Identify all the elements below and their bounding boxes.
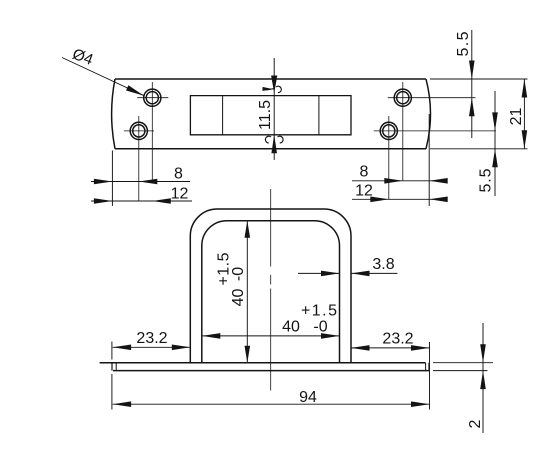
svg-text:3.8: 3.8 [372, 256, 394, 273]
svg-text:-0: -0 [313, 319, 327, 336]
svg-text:40: 40 [282, 319, 300, 336]
extension line baseplate right end [429, 342, 431, 410]
arrow down 21 [522, 130, 528, 149]
svg-text:5.5: 5.5 [455, 31, 472, 56]
arrow up to hole line (5.5) [469, 98, 475, 117]
dim line 21 [523, 79, 525, 149]
svg-text:40: 40 [230, 289, 247, 307]
arrow up to inner top [245, 221, 251, 238]
svg-text:23.2: 23.2 [382, 331, 413, 348]
centerline TR horizontal / ext right [388, 97, 476, 99]
dim line 3.8 left part [298, 272, 340, 274]
hole top-right outer circle [394, 89, 411, 106]
centerline BL vertical / ext to dim 8 [138, 116, 140, 201]
centerline BR vertical / ext to dim 12R [388, 116, 390, 199]
arrow to left edge (8) [94, 179, 113, 185]
dim line 23.2 left [113, 346, 191, 348]
slot rectangle [190, 96, 351, 135]
hole bottom-right outer circle [380, 122, 397, 139]
dim line 12 left [91, 200, 192, 202]
extension line right edge [428, 114, 430, 206]
dim line 23.2 right [351, 347, 430, 349]
extension line baseplate left end upper [111, 342, 113, 360]
svg-text:+1.5: +1.5 [301, 303, 337, 320]
svg-text:23.2: 23.2 [136, 330, 167, 347]
arrow left (23.2 R) [351, 345, 370, 351]
baseplate right end cap [428, 363, 430, 371]
svg-text:94: 94 [299, 389, 317, 406]
hole bottom-right inner circle [383, 125, 395, 137]
tick at slot top [267, 89, 275, 91]
svg-text:5.5: 5.5 [478, 168, 495, 192]
arrow right (40) [321, 333, 340, 339]
hole top-left inner circle [146, 92, 158, 104]
dim line 3.8 right part [351, 272, 398, 274]
centerline BR horizontal / ext right [374, 130, 496, 132]
arrow down to plate top (2) [480, 344, 486, 363]
arrow up to plate bottom (2) [480, 371, 486, 390]
arrow down to hole line (5.5) [492, 112, 498, 130]
arrow to hole BL (8) [139, 179, 158, 185]
svg-text:11.5: 11.5 [257, 100, 274, 130]
plate left arc edge [112, 79, 115, 149]
small arrow at slot top [262, 87, 273, 91]
slot bend line left [222, 96, 224, 135]
arrow right to inner wall (3.8) [321, 271, 340, 277]
U-channel inner profile [202, 221, 340, 363]
svg-text:8: 8 [360, 164, 369, 181]
arrow left (94) [113, 401, 132, 407]
slot bend line right [318, 96, 320, 135]
dim line 5.5 bottom [494, 91, 496, 196]
centerline BL horizontal [124, 130, 154, 132]
dim line 8 left [91, 181, 190, 183]
arrow left (40) [202, 333, 221, 339]
dim line 12 right [352, 198, 447, 200]
arrow up to bottom edge (5.5) [492, 149, 498, 168]
U-channel outer profile [190, 209, 351, 363]
leader line for diameter 4 [62, 58, 144, 96]
svg-text:21: 21 [508, 108, 525, 126]
hook right at slot bottom [278, 136, 284, 143]
extension baseplate bottom right [433, 370, 488, 372]
svg-text:-0: -0 [230, 267, 247, 281]
extension line baseplate left end lower [111, 374, 113, 410]
svg-text:8: 8 [174, 166, 183, 183]
arrow right (23.2 L) [172, 345, 191, 351]
plate right arc edge [426, 79, 431, 149]
hole bottom-left outer circle [130, 122, 147, 139]
arrow down to top edge (5.5) [469, 61, 475, 80]
centerline TL horizontal [137, 97, 168, 99]
dim line 5.5 top [471, 30, 473, 138]
baseplate left end inner line [115, 363, 117, 371]
hook right at slot top [276, 86, 281, 92]
hole top-right inner circle [397, 92, 409, 104]
center dimension line 11.5 [273, 58, 275, 160]
arrow down to baseplate top [245, 346, 251, 363]
extension baseplate top right [433, 362, 493, 364]
leader arrowhead [126, 85, 144, 95]
dim line 94 [113, 403, 430, 405]
extension top edge right [430, 78, 528, 80]
arrow up 21 [522, 79, 528, 98]
center axis dash [270, 275, 272, 285]
dim line 40 vertical [246, 221, 248, 363]
arrow right (94) [411, 401, 430, 407]
arrow to right edge (8) [429, 178, 448, 184]
arrow to left edge (12) [94, 198, 113, 204]
arrow right (23.2 R) [411, 345, 430, 351]
baseplate left end cap [111, 363, 113, 371]
hole top-left outer circle [144, 89, 161, 106]
hook left at slot bottom [265, 136, 271, 143]
baseplate top line [100, 362, 426, 364]
arrow to hole BR (12) [370, 197, 389, 203]
centerline TL vertical / ext to dim 12 [151, 82, 153, 182]
arrow to right edge (12) [429, 197, 448, 203]
plate bottom edge [115, 148, 426, 150]
hole bottom-left inner circle [133, 125, 145, 137]
arrow to hole TR (8) [384, 178, 403, 184]
dim line 40 horizontal [202, 335, 340, 337]
plate top edge [115, 78, 426, 80]
arrow to hole TL (12) [152, 198, 171, 204]
svg-text:12: 12 [355, 183, 373, 200]
extension line left edge [111, 151, 113, 207]
dim line 2 [482, 323, 484, 433]
baseplate bottom line [113, 370, 429, 372]
centerline TR vertical / ext to dim 8R [402, 82, 404, 181]
dim line 8 right [352, 180, 447, 182]
svg-text:2: 2 [467, 419, 484, 428]
center axis segment 1 [270, 189, 272, 267]
arrow left (23.2 L) [113, 345, 132, 351]
svg-text:12: 12 [171, 186, 189, 203]
arrow up to slot bottom [271, 135, 277, 154]
arrow down to slot top [271, 76, 277, 94]
extension bottom edge right [430, 148, 528, 150]
center axis segment 2 [270, 289, 272, 391]
arrow left to outer wall (3.8) [351, 271, 370, 277]
baseplate right end inner line [425, 363, 427, 371]
